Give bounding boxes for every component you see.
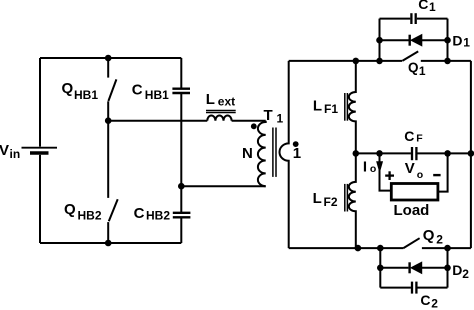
label Io <box>363 159 376 176</box>
svg-text:2: 2 <box>462 267 469 281</box>
svg-text:Q: Q <box>423 227 435 244</box>
svg-text:L: L <box>206 91 215 108</box>
transformer core <box>273 128 276 177</box>
inductor LF1 <box>345 61 356 153</box>
switch Q2 <box>403 238 471 248</box>
wire transformer primary bottom return <box>181 185 265 187</box>
svg-text:F: F <box>416 132 423 144</box>
wire top primary rail <box>40 57 181 59</box>
diode D1 <box>380 35 448 46</box>
svg-text:T: T <box>264 107 273 124</box>
node QHB2 source / bottom wire <box>105 240 112 247</box>
diode D2 <box>380 262 447 273</box>
svg-text:C: C <box>420 292 430 308</box>
label QHB2 <box>64 201 102 222</box>
label Vin <box>0 142 20 161</box>
wire load left drop with Io <box>380 153 392 190</box>
label Lext <box>206 91 235 109</box>
svg-text:1: 1 <box>463 35 470 49</box>
node primary return / CHB rail junction <box>178 183 185 190</box>
svg-text:N: N <box>242 145 253 162</box>
label C2 <box>420 292 438 310</box>
node D2 left junction <box>377 265 384 272</box>
label CHB1 <box>132 82 169 102</box>
svg-text:I: I <box>363 159 367 176</box>
capacitor CHB1 <box>172 58 190 121</box>
label - polarity <box>433 174 440 176</box>
source Vin battery <box>22 148 58 153</box>
wire secondary top rail <box>289 60 402 62</box>
wire left rail bottom (Vin- to bottom wire) <box>39 155 41 243</box>
wire CHB rail middle segment <box>180 121 182 213</box>
svg-text:1: 1 <box>293 145 301 162</box>
inductor LF2 <box>345 153 356 248</box>
label D2 <box>452 262 469 281</box>
wire far right rail <box>470 61 472 248</box>
wire load right drop <box>438 153 448 191</box>
svg-text:2: 2 <box>431 297 438 310</box>
node LF junction / CF wire left <box>353 150 360 157</box>
node D2 right junction <box>444 265 451 272</box>
label Vo <box>405 160 424 181</box>
label LF1 <box>313 97 338 116</box>
label C1 <box>418 0 436 14</box>
wire CF rail <box>356 152 411 154</box>
wire D2/C2 left rail <box>379 248 381 288</box>
svg-text:2: 2 <box>436 232 443 246</box>
label D1 <box>452 33 470 50</box>
svg-text:HB2: HB2 <box>78 209 102 223</box>
node LF1 top junction <box>353 58 360 65</box>
label LF2 <box>313 190 338 209</box>
wire half-bridge midpoint to Lext <box>108 120 207 122</box>
svg-text:F1: F1 <box>324 102 338 116</box>
wire C1/D1 left rail <box>379 19 381 61</box>
svg-text:1: 1 <box>419 64 426 78</box>
label Q2 <box>423 227 443 247</box>
inductor Lext <box>206 111 236 121</box>
label QHB1 <box>62 80 99 102</box>
wire C1/D1 right rail <box>447 19 449 61</box>
wire secondary bottom rail <box>289 247 404 249</box>
switch Q1 <box>402 51 471 61</box>
wire D2/C2 right rail <box>447 248 449 288</box>
node Q2 right junction <box>444 245 451 252</box>
svg-text:ext: ext <box>218 94 235 108</box>
label CF <box>404 128 423 144</box>
svg-text:Q: Q <box>408 60 419 75</box>
svg-text:C: C <box>132 82 143 99</box>
capacitor CF <box>412 147 471 160</box>
svg-text:HB2: HB2 <box>146 208 170 222</box>
svg-text:C: C <box>134 205 145 222</box>
capacitor CHB2 <box>173 213 191 243</box>
svg-text:o: o <box>370 163 376 175</box>
node Q1 right junction <box>444 58 451 65</box>
svg-text:Load: Load <box>394 202 430 219</box>
label + polarity <box>385 171 394 180</box>
capacitor C2 <box>380 282 447 294</box>
label Q1 <box>408 60 426 78</box>
svg-text:HB1: HB1 <box>74 88 98 102</box>
node secondary polarity dot <box>293 141 299 147</box>
label CHB2 <box>134 205 171 222</box>
node D1 anode junction <box>444 37 451 44</box>
node load branch left <box>376 150 383 157</box>
transformer T1 primary winding N <box>258 121 266 187</box>
svg-text:F2: F2 <box>324 195 338 209</box>
wire bottom primary rail <box>40 242 181 244</box>
svg-text:in: in <box>10 147 21 161</box>
svg-text:V: V <box>405 160 415 177</box>
node load branch right <box>444 150 451 157</box>
svg-text:Q: Q <box>64 201 76 218</box>
svg-text:1: 1 <box>277 112 284 126</box>
node primary polarity dot <box>251 123 257 129</box>
svg-text:L: L <box>313 190 322 207</box>
svg-text:C: C <box>404 128 414 144</box>
label T1 <box>264 107 284 126</box>
wire left rail top (Vin+ to top wire) <box>39 58 41 147</box>
node far right rail / CF wire junction <box>468 150 474 157</box>
svg-text:C: C <box>418 0 428 12</box>
svg-text:Q: Q <box>62 80 74 97</box>
svg-text:D: D <box>452 33 462 49</box>
switch QHB1 <box>108 58 116 121</box>
svg-text:HB1: HB1 <box>145 88 169 102</box>
svg-text:V: V <box>0 142 9 159</box>
svg-text:L: L <box>313 97 322 114</box>
node half-bridge midpoint <box>105 117 112 124</box>
node QHB1 drain <box>105 55 112 62</box>
load box <box>391 184 438 201</box>
arrow Io <box>377 162 383 172</box>
svg-text:D: D <box>452 262 462 278</box>
node Q2 block left junction <box>377 245 384 252</box>
svg-text:o: o <box>417 169 423 181</box>
wire Lext to transformer primary <box>232 120 266 122</box>
node D1 cathode junction <box>376 37 383 44</box>
svg-text:1: 1 <box>429 0 436 14</box>
switch QHB2 <box>108 121 118 243</box>
transformer T1 secondary winding (1 turn) <box>280 61 289 248</box>
node Q1 block left junction <box>376 58 383 65</box>
node LF2 bottom junction <box>355 245 362 252</box>
capacitor C1 <box>380 13 448 24</box>
